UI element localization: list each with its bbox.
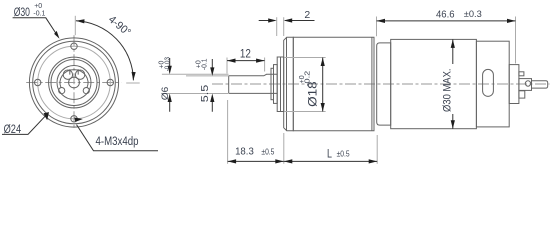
- terminal top tab: [519, 72, 524, 76]
- svg-text:-0.1: -0.1: [33, 11, 45, 18]
- E-clip outer arc: [60, 70, 88, 88]
- centerline horizontal: [26, 82, 121, 84]
- bolt hole right: [107, 79, 113, 85]
- svg-text:46.6: 46.6: [436, 8, 455, 20]
- svg-text:±0.5: ±0.5: [337, 150, 350, 159]
- E-clip right foot: [83, 88, 89, 94]
- dim 18.3 ±0.5: [228, 100, 284, 164]
- svg-text:12: 12: [240, 47, 251, 61]
- centerline vertical: [73, 35, 75, 129]
- angle ext line vertical: [74, 16, 76, 35]
- dim 46.6 ±0.3 (motor length): [377, 17, 516, 64]
- terminal block: [519, 79, 532, 91]
- face step circle: [49, 57, 100, 108]
- terminal rivet: [525, 81, 530, 86]
- E-clip prong lines: [70, 69, 78, 74]
- dim Ø6 +0/-0.03 (shaft dia): [162, 74, 229, 93]
- centerline: [212, 83, 550, 85]
- svg-text:+0: +0: [34, 3, 42, 10]
- bolt hole top: [71, 43, 77, 49]
- svg-text:±0.5: ±0.5: [261, 148, 274, 157]
- svg-text:-0.1: -0.1: [202, 58, 209, 70]
- outer circle Ø30 case: [29, 38, 118, 127]
- dim L ±0.5 (gearbox length): [376, 135, 378, 164]
- svg-text:2: 2: [304, 9, 310, 21]
- vent slot oval: [483, 69, 494, 96]
- E-clip left ear: [63, 70, 72, 79]
- boss Ø18: [277, 57, 284, 112]
- dim 5.5 +0/-0.1 (shaft flat): [186, 75, 229, 77]
- svg-text:Ø6: Ø6: [160, 87, 171, 101]
- svg-text:5.5: 5.5: [200, 84, 211, 102]
- svg-text:-0.03: -0.03: [165, 57, 172, 71]
- motor front ring: [377, 43, 391, 125]
- leader Ø24: [2, 114, 48, 135]
- svg-text:4-M3x4dp: 4-M3x4dp: [96, 136, 139, 148]
- svg-text:-0.2: -0.2: [305, 71, 312, 87]
- dim 2 (boss protrusion): [277, 17, 284, 36]
- gearbox front plate: [284, 37, 294, 130]
- plate chamfer edge line: [286, 37, 288, 130]
- E-clip right ear: [75, 70, 84, 79]
- bolt hole bottom: [71, 116, 77, 122]
- boss circle: [57, 66, 91, 100]
- leader 4-M3x4dp: [77, 125, 159, 151]
- motor can: [391, 39, 477, 128]
- chamfer circle: [33, 41, 116, 124]
- E-ring on shaft: [271, 68, 274, 99]
- gearbox body: [293, 37, 374, 130]
- dim Ø30 MAX. (can dia): [452, 39, 454, 128]
- face step circle 2: [51, 60, 97, 106]
- shaft circle: [69, 77, 80, 88]
- shaft outline with flat: [229, 74, 278, 93]
- washer: [274, 65, 278, 104]
- leader Ø30: [13, 18, 58, 37]
- E-clip left foot: [59, 88, 65, 94]
- svg-text:18.3: 18.3: [235, 147, 254, 158]
- motor endcap section: [476, 41, 509, 127]
- bolt circle Ø24: [38, 46, 111, 119]
- svg-text:L: L: [327, 147, 332, 161]
- bolt hole left: [35, 79, 41, 85]
- gearbox rear lip line: [371, 37, 373, 130]
- terminal pin: [532, 81, 548, 88]
- brush housing bulge: [509, 65, 519, 104]
- angle ext line horizontal: [126, 82, 140, 84]
- svg-text:Ø30 MAX.: Ø30 MAX.: [442, 69, 454, 113]
- dim 12 (shaft flat length): [227, 58, 265, 74]
- svg-text:±0.3: ±0.3: [464, 9, 482, 19]
- terminal bottom tab: [519, 91, 525, 98]
- dim Ø18 +0/-0.2 (boss dia): [284, 58, 325, 112]
- angle dim arc 4-90: [76, 21, 134, 81]
